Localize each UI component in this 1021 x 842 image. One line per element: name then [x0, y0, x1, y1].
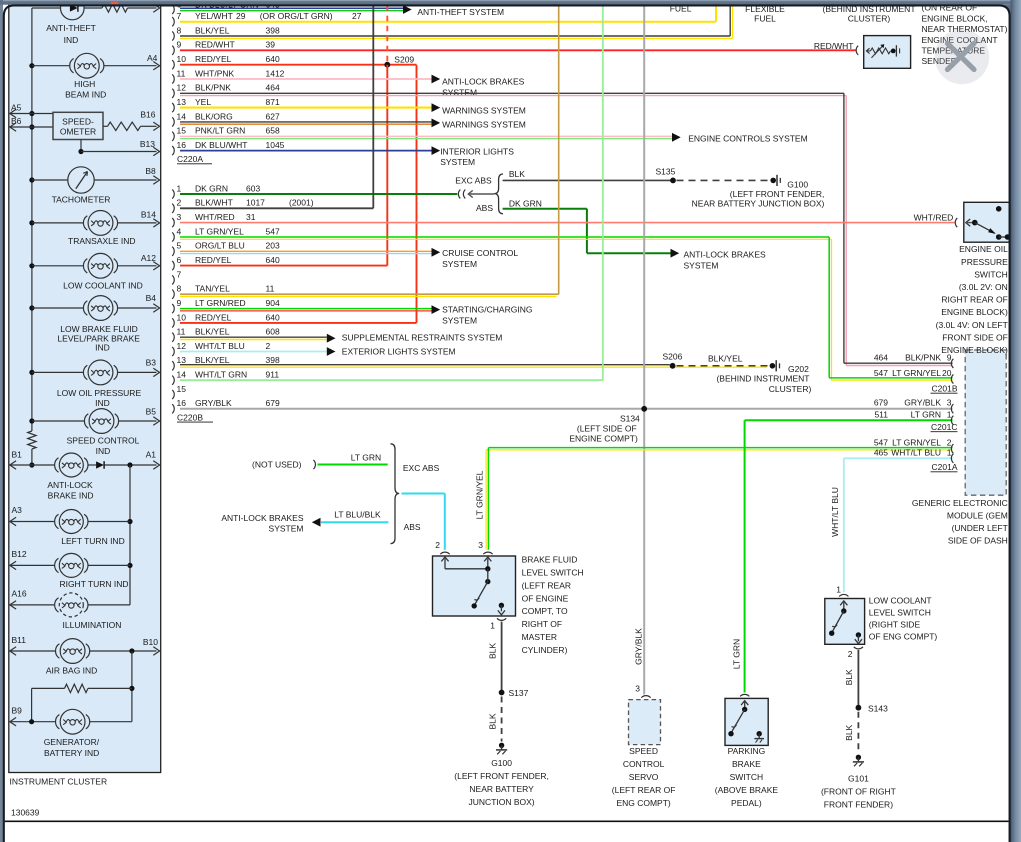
svg-text:LEVEL SWITCH: LEVEL SWITCH — [522, 568, 584, 578]
wire pin4 LT GRN/YEL to GEM pin20 — [180, 236, 829, 238]
pin 6 C220B — [172, 261, 174, 270]
svg-text:2: 2 — [435, 540, 440, 550]
svg-text:(LEFT FRONT FENDER,: (LEFT FRONT FENDER, — [454, 771, 549, 781]
wire: high beam ind row, pin A4 — [32, 65, 70, 67]
lamp row B9 GENERATOR/BATTERY IND — [10, 721, 56, 723]
svg-text:20: 20 — [942, 368, 952, 378]
svg-text:FRONT FENDER): FRONT FENDER) — [824, 799, 893, 809]
svg-text:C201B: C201B — [932, 383, 958, 393]
svg-text:RED/WHT: RED/WHT — [814, 41, 854, 51]
svg-text:RIGHT TURN IND: RIGHT TURN IND — [59, 579, 128, 589]
pin 6 C220A (cut off at top) — [172, 5, 174, 14]
wire pin11 BLK/YEL to SRS — [180, 336, 327, 338]
bottom rule line — [5, 820, 1009, 822]
svg-text:LT BLU/BLK: LT BLU/BLK — [334, 510, 381, 520]
wire pin8 TAN/YEL up to top — [180, 293, 559, 295]
svg-text:B5: B5 — [146, 407, 157, 417]
svg-text:871: 871 — [266, 97, 280, 107]
svg-text:BLK: BLK — [844, 724, 854, 740]
svg-text:BLK/PNK: BLK/PNK — [905, 352, 941, 362]
resistor (anti-theft row) — [102, 4, 128, 12]
svg-text:JUNCTION BOX): JUNCTION BOX) — [469, 797, 535, 807]
svg-text:ENGINE BLOCK,: ENGINE BLOCK, — [922, 13, 988, 23]
svg-text:(3.0L 4V: ON LEFT: (3.0L 4V: ON LEFT — [936, 320, 1008, 330]
svg-text:CLUSTER): CLUSTER) — [769, 384, 812, 394]
svg-text:WHT/LT GRN: WHT/LT GRN — [195, 370, 247, 380]
wire BLK dashed to G100 — [501, 697, 503, 742]
connector arc (not used) — [313, 460, 315, 469]
lamp row A16 — [10, 604, 55, 606]
pin 15 C220B — [172, 390, 174, 399]
svg-text:B6: B6 — [11, 116, 22, 126]
svg-text:ENG COMPT): ENG COMPT) — [616, 798, 670, 808]
svg-text:S135: S135 — [656, 167, 676, 177]
speed control servo M1 (dashed box) — [629, 700, 661, 745]
svg-text:2: 2 — [947, 438, 952, 448]
svg-text:B12: B12 — [12, 549, 27, 559]
svg-text:8: 8 — [177, 284, 182, 294]
splice S137 — [499, 690, 505, 696]
svg-text:ILLUMINATION: ILLUMINATION — [63, 620, 122, 630]
svg-text:911: 911 — [266, 370, 280, 380]
pin 11 C220A — [172, 74, 174, 83]
svg-text:SYSTEM: SYSTEM — [684, 260, 719, 270]
GEM module U2 (dashed box) — [965, 350, 1006, 495]
wire pin9 RED/WHT to coolant sender — [180, 49, 856, 51]
svg-text:(RIGHT SIDE: (RIGHT SIDE — [869, 620, 921, 630]
svg-text:465: 465 — [874, 447, 888, 457]
svg-text:BATTERY IND: BATTERY IND — [44, 748, 99, 758]
svg-text:WHT/LT BLU: WHT/LT BLU — [830, 487, 840, 537]
wire BLK dashed to G101 — [857, 712, 859, 753]
svg-text:S143: S143 — [868, 703, 888, 713]
svg-text:BLK/YEL: BLK/YEL — [708, 353, 743, 363]
wire: tachometer row pin B8 — [32, 179, 68, 181]
svg-text:11: 11 — [177, 68, 186, 78]
svg-text:ANTI-THEFT SYSTEM: ANTI-THEFT SYSTEM — [417, 7, 504, 17]
svg-text:G100: G100 — [787, 180, 808, 190]
svg-text:NEAR BATTERY: NEAR BATTERY — [469, 784, 534, 794]
svg-text:1: 1 — [947, 409, 952, 419]
svg-text:PARKING: PARKING — [728, 746, 766, 756]
pin 12 C220A — [172, 89, 174, 98]
svg-text:13: 13 — [177, 355, 187, 365]
wire pin10 RED/YEL via S209 down to C220B pin10 — [180, 64, 417, 66]
wire LT GRN/YEL from GEM pin2 (C201A) to brake fluid switch pin3 — [488, 447, 952, 449]
svg-text:LEVEL SWITCH: LEVEL SWITCH — [869, 608, 931, 618]
junction on bus — [29, 263, 34, 268]
arrow into brace — [469, 193, 495, 195]
junction on bus — [29, 305, 34, 310]
svg-text:LT GRN/YEL: LT GRN/YEL — [195, 226, 244, 236]
GEM pin 1 (WHT/LT BLU) — [951, 454, 953, 463]
switch internals — [444, 559, 446, 569]
svg-text:IND: IND — [96, 446, 111, 456]
svg-text:A1: A1 — [146, 450, 157, 460]
pin 9 C220B — [172, 304, 174, 313]
wire pin7 YEL/WHT to top (FUEL) — [180, 21, 716, 23]
junction on bus — [29, 220, 34, 225]
svg-text:7: 7 — [177, 269, 182, 279]
svg-text:COMPT, TO: COMPT, TO — [522, 606, 568, 616]
svg-text:BLK: BLK — [488, 643, 498, 659]
splice S209 — [384, 62, 390, 68]
svg-text:547: 547 — [266, 226, 280, 236]
lamp row B14 — [32, 222, 84, 224]
svg-text:14: 14 — [177, 111, 187, 121]
brake fluid level switch SW1 — [433, 556, 516, 616]
ground G100 (lower) — [499, 743, 504, 748]
svg-text:640: 640 — [266, 54, 280, 64]
svg-text:9: 9 — [177, 298, 182, 308]
svg-text:SWITCH: SWITCH — [730, 772, 764, 782]
svg-text:LOW COOLANT IND: LOW COOLANT IND — [63, 281, 143, 291]
svg-text:WARNINGS SYSTEM: WARNINGS SYSTEM — [442, 106, 526, 116]
lamp row B11/B10 AIR BAG IND — [10, 650, 56, 652]
wire LT GRN (not used) — [318, 464, 388, 466]
lamp row B1/A1 ANTI-LOCK BRAKE IND with diode — [10, 464, 55, 466]
svg-text:YEL: YEL — [195, 97, 211, 107]
svg-text:ANTI-LOCK BRAKES: ANTI-LOCK BRAKES — [684, 250, 767, 260]
svg-text:RED/YEL: RED/YEL — [195, 54, 232, 64]
svg-text:A16: A16 — [12, 589, 27, 599]
diode (anti-lock brake ind) — [96, 461, 104, 468]
svg-text:PRESSURE: PRESSURE — [961, 257, 1008, 267]
svg-text:1045: 1045 — [266, 140, 285, 150]
wire pin12 BLK/PNK to GEM pin9 — [180, 92, 844, 94]
wire dashed ORG/LT GRN alt from S209 to top — [386, 6, 388, 65]
pin 10 C220B — [172, 318, 174, 327]
wire DK GRN from brace to ABS arrow — [503, 208, 587, 210]
svg-text:BLK/ORG: BLK/ORG — [195, 111, 233, 121]
svg-text:464: 464 — [874, 352, 888, 362]
wire: cluster feed bus — [31, 8, 33, 431]
svg-text:LOW COOLANT: LOW COOLANT — [869, 596, 932, 606]
svg-text:ANTI-LOCK BRAKES: ANTI-LOCK BRAKES — [221, 513, 304, 523]
svg-text:LT GRN: LT GRN — [911, 409, 941, 419]
svg-text:(LEFT FRONT FENDER,: (LEFT FRONT FENDER, — [730, 189, 825, 199]
svg-text:FUEL: FUEL — [754, 14, 776, 24]
svg-text:1: 1 — [490, 620, 495, 630]
svg-text:LT GRN: LT GRN — [351, 453, 381, 463]
svg-text:11: 11 — [266, 284, 275, 294]
svg-text:640: 640 — [266, 255, 280, 265]
svg-text:3: 3 — [947, 398, 952, 408]
wire cyan from brace to brake fluid switch pin2 — [402, 493, 445, 495]
wire LT GRN from GEM pin1 (C201C) to parking brake switch — [745, 419, 953, 421]
wire pin8 BLK/YEL to top (FLEXIBLE FUEL) — [180, 35, 730, 37]
pin 1 cap/label — [497, 618, 506, 620]
svg-text:547: 547 — [874, 438, 888, 448]
svg-text:B9: B9 — [12, 706, 23, 716]
svg-text:EXTERIOR LIGHTS SYSTEM: EXTERIOR LIGHTS SYSTEM — [342, 347, 456, 357]
svg-text:14: 14 — [177, 370, 187, 380]
svg-text:GENERIC ELECTRONIC: GENERIC ELECTRONIC — [912, 498, 1008, 508]
svg-text:RED/YEL: RED/YEL — [195, 312, 232, 322]
svg-text:2: 2 — [848, 649, 853, 659]
svg-text:398: 398 — [266, 355, 280, 365]
parking brake switch SW2 — [740, 694, 749, 696]
wire pin15 PNK/LT GRN to engine controls — [180, 135, 672, 137]
wire pin14 WHT/LT GRN up to top — [180, 379, 603, 381]
junction on bus — [29, 370, 34, 375]
wire pin16 GRY/BLK to GEM pin3 via S134 — [180, 408, 953, 410]
splice S206 — [670, 363, 676, 369]
svg-text:SWITCH: SWITCH — [974, 269, 1008, 279]
svg-text:IND: IND — [95, 343, 110, 353]
svg-text:BLK/WHT: BLK/WHT — [195, 198, 233, 208]
svg-text:BLK/YEL: BLK/YEL — [195, 25, 230, 35]
svg-text:RIGHT OF: RIGHT OF — [522, 619, 562, 629]
right chrome band — [997, 5, 1011, 19]
ground G202 — [770, 363, 776, 369]
GEM pin 20 (LT GRN/YEL) — [951, 374, 953, 383]
svg-text:679: 679 — [874, 398, 888, 408]
svg-text:TAN/YEL: TAN/YEL — [195, 284, 230, 294]
svg-text:29: 29 — [236, 11, 246, 21]
brace (EXC ABS / ABS split) — [494, 174, 503, 214]
svg-text:10: 10 — [177, 312, 187, 322]
svg-text:A12: A12 — [141, 253, 156, 263]
svg-text:ANTI-THEFT: ANTI-THEFT — [46, 23, 96, 33]
svg-text:GENERATOR/: GENERATOR/ — [44, 737, 100, 747]
pin 15 C220A — [172, 132, 174, 141]
brace (EXC ABS/ABS at brake fluid switch) — [391, 444, 400, 544]
pin 14 C220A — [172, 117, 174, 126]
svg-text:BLK/PNK: BLK/PNK — [195, 83, 231, 93]
svg-text:15: 15 — [177, 126, 187, 136]
svg-text:B16: B16 — [140, 110, 155, 120]
lamp row A12 — [32, 265, 84, 267]
svg-text:B11: B11 — [12, 635, 27, 645]
wire: speedometer pin A5 — [10, 113, 53, 115]
pin 16 C220A — [172, 146, 174, 155]
GEM pin 2 (LT GRN/YEL) — [951, 444, 953, 453]
svg-text:3: 3 — [478, 540, 483, 550]
speedometer U1 — [53, 112, 103, 139]
svg-text:BLK: BLK — [488, 713, 498, 729]
svg-text:DK GRN: DK GRN — [509, 199, 542, 209]
svg-text:658: 658 — [266, 126, 280, 136]
pin 12 C220B — [172, 347, 174, 356]
svg-text:WHT/RED: WHT/RED — [195, 212, 235, 222]
svg-text:SPEED-: SPEED- — [62, 117, 94, 127]
svg-text:904: 904 — [266, 298, 280, 308]
svg-text:CRUISE CONTROL: CRUISE CONTROL — [442, 248, 518, 258]
svg-text:GRY/BLK: GRY/BLK — [195, 398, 232, 408]
wire pin3 WHT/RED to oil pressure switch — [180, 222, 955, 224]
svg-text:1: 1 — [947, 447, 952, 457]
svg-text:CLUSTER): CLUSTER) — [848, 13, 891, 23]
pin 11 C220B — [172, 333, 174, 342]
svg-text:YEL/WHT: YEL/WHT — [195, 11, 233, 21]
svg-text:SPEED: SPEED — [629, 746, 658, 756]
svg-text:LOW BRAKE FLUID: LOW BRAKE FLUID — [60, 324, 137, 334]
svg-text:ABS: ABS — [476, 203, 493, 213]
GEM pin 9 (BLK/PNK) — [951, 359, 953, 368]
wire BLK from brace to S135 and dashed to G100 — [503, 179, 671, 181]
svg-text:2: 2 — [177, 198, 182, 208]
svg-text:DK BLU/WHT: DK BLU/WHT — [195, 140, 247, 150]
svg-text:ORG/LT BLU: ORG/LT BLU — [195, 241, 245, 251]
svg-text:B10: B10 — [143, 637, 158, 647]
svg-text:MODULE (GEM: MODULE (GEM — [947, 511, 1008, 521]
junction on bus — [29, 111, 34, 116]
engine oil pressure switch SW4 — [964, 202, 1010, 242]
svg-text:RED/YEL: RED/YEL — [195, 255, 232, 265]
svg-text:608: 608 — [266, 327, 280, 337]
pin 7 C220B — [172, 275, 174, 284]
svg-text:(BEHIND INSTRUMENT: (BEHIND INSTRUMENT — [716, 374, 809, 384]
svg-text:CONTROL: CONTROL — [623, 759, 665, 769]
svg-text:HIGH: HIGH — [74, 79, 95, 89]
svg-text:G101: G101 — [848, 773, 869, 783]
wire: right branch vertical — [129, 465, 131, 605]
resistor R-bus (in cluster) — [28, 431, 36, 449]
svg-text:IND: IND — [64, 35, 79, 45]
svg-text:SYSTEM: SYSTEM — [442, 315, 477, 325]
svg-text:3: 3 — [635, 683, 640, 693]
svg-text:WHT/RED: WHT/RED — [914, 212, 954, 222]
svg-text:CYLINDER): CYLINDER) — [522, 645, 568, 655]
svg-text:C201C: C201C — [931, 422, 957, 432]
svg-text:(LEFT REAR OF: (LEFT REAR OF — [612, 785, 676, 795]
svg-text:6: 6 — [177, 255, 182, 265]
wire pin11 WHT/PNK to ABS system arrow — [180, 78, 432, 80]
svg-text:511: 511 — [874, 409, 888, 419]
instrument cluster panel — [9, 2, 161, 773]
svg-text:15: 15 — [177, 384, 187, 394]
close button (X) overlay — [935, 30, 990, 85]
svg-text:130639: 130639 — [11, 808, 40, 818]
inline connector arcs — [458, 190, 460, 199]
svg-text:679: 679 — [266, 398, 280, 408]
splice S134 — [641, 406, 647, 412]
svg-text:WHT/LT BLU: WHT/LT BLU — [891, 447, 941, 457]
junction on bus — [29, 462, 34, 467]
wire BLK pin2 to S143 — [857, 650, 859, 708]
lamp row A3 — [10, 521, 55, 523]
svg-text:C201A: C201A — [932, 462, 958, 472]
wire RED/YEL S209 down to C220B pin6 — [386, 65, 388, 266]
svg-text:WHT/PNK: WHT/PNK — [195, 68, 235, 78]
svg-text:EXC ABS: EXC ABS — [403, 463, 440, 473]
junction on bus — [29, 418, 34, 423]
svg-text:ANTI-LOCK BRAKES: ANTI-LOCK BRAKES — [442, 77, 525, 87]
tiny red mark on bar — [111, 2, 119, 5]
svg-text:B3: B3 — [146, 358, 157, 368]
wire: anti-theft ind row — [32, 7, 61, 9]
svg-text:BRAKE IND: BRAKE IND — [48, 491, 94, 501]
svg-text:ENGINE BLOCK): ENGINE BLOCK) — [941, 345, 1008, 355]
svg-text:(NOT USED): (NOT USED) — [252, 460, 302, 470]
wire pin2 BLK/WHT up to top — [180, 207, 373, 209]
wire pin9 LT GRN/RED to starting/charging — [180, 308, 432, 310]
svg-text:PNK/LT GRN: PNK/LT GRN — [195, 126, 245, 136]
svg-text:B8: B8 — [145, 166, 156, 176]
svg-text:LT GRN: LT GRN — [732, 639, 742, 669]
svg-text:IND: IND — [95, 398, 110, 408]
engine coolant temperature sender RT1 — [864, 36, 911, 69]
wire pin13 BLK/YEL to S206 and dashed to G202 — [180, 364, 670, 366]
wire pin13 YEL to warnings — [180, 107, 432, 109]
svg-text:(LEFT REAR: (LEFT REAR — [522, 580, 571, 590]
svg-text:PEDAL): PEDAL) — [731, 798, 762, 808]
svg-text:ABS: ABS — [404, 522, 421, 532]
pin 8 C220B — [172, 290, 174, 299]
pin 14 C220B — [172, 376, 174, 385]
GEM pin 1 (LT GRN) — [951, 416, 953, 425]
ground G100 (upper) — [770, 178, 776, 184]
pin 4 C220B — [172, 232, 174, 241]
wire: pin B13 from speedometer — [80, 140, 82, 152]
svg-text:(2001): (2001) — [289, 198, 314, 208]
svg-text:STARTING/CHARGING: STARTING/CHARGING — [442, 305, 532, 315]
svg-text:LEFT TURN IND: LEFT TURN IND — [61, 536, 124, 546]
svg-text:9: 9 — [177, 40, 182, 50]
svg-text:S137: S137 — [509, 688, 529, 698]
svg-text:ENGINE CONTROLS SYSTEM: ENGINE CONTROLS SYSTEM — [688, 134, 808, 144]
svg-text:SPEED CONTROL: SPEED CONTROL — [67, 436, 140, 446]
svg-text:(FRONT OF RIGHT: (FRONT OF RIGHT — [821, 786, 896, 796]
svg-text:(ABOVE BRAKE: (ABOVE BRAKE — [715, 785, 779, 795]
resistor (generator row) — [88, 687, 132, 689]
svg-text:603: 603 — [246, 183, 260, 193]
svg-text:SIDE OF DASH: SIDE OF DASH — [948, 536, 1008, 546]
resistor + pin B16 — [103, 125, 108, 127]
svg-text:FRONT SIDE OF: FRONT SIDE OF — [942, 332, 1008, 342]
svg-text:1017: 1017 — [246, 198, 265, 208]
svg-text:WARNINGS SYSTEM: WARNINGS SYSTEM — [442, 120, 526, 130]
svg-text:S209: S209 — [394, 55, 414, 65]
GEM pin 3 (GRY/BLK) — [951, 404, 953, 413]
wire WHT/LT BLU from GEM pin1 (C201A) to low coolant switch — [844, 457, 953, 459]
pin 2 C220B — [172, 204, 174, 213]
svg-text:RIGHT REAR OF: RIGHT REAR OF — [941, 295, 1007, 305]
svg-text:8: 8 — [177, 25, 182, 35]
pin 9 C220A — [172, 46, 174, 55]
svg-text:SYSTEM: SYSTEM — [269, 523, 304, 533]
pin 10 C220A — [172, 60, 174, 69]
pin 8 C220A — [172, 31, 174, 40]
svg-text:RED/WHT: RED/WHT — [195, 40, 235, 50]
svg-text:1: 1 — [177, 183, 182, 193]
svg-text:BLK/YEL: BLK/YEL — [195, 327, 230, 337]
svg-text:C220A: C220A — [177, 154, 203, 164]
svg-text:NEAR BATTERY JUNCTION BOX): NEAR BATTERY JUNCTION BOX) — [692, 199, 825, 209]
svg-text:B13: B13 — [140, 139, 155, 149]
svg-text:640: 640 — [266, 312, 280, 322]
svg-text:5: 5 — [177, 241, 182, 251]
svg-text:A5: A5 — [11, 103, 22, 113]
svg-text:SYSTEM: SYSTEM — [442, 259, 477, 269]
svg-text:12: 12 — [177, 341, 187, 351]
junction on bus — [29, 63, 34, 68]
svg-text:16: 16 — [177, 398, 187, 408]
svg-text:MASTER: MASTER — [522, 632, 557, 642]
svg-text:398: 398 — [266, 25, 280, 35]
svg-text:BRAKE FLUID: BRAKE FLUID — [522, 555, 578, 565]
splice S135 — [670, 178, 676, 184]
svg-text:TRANSAXLE IND: TRANSAXLE IND — [68, 236, 136, 246]
svg-text:LT GRN/RED: LT GRN/RED — [195, 298, 246, 308]
anti-theft indicator LED (diode in circle) — [61, 0, 85, 20]
wire pin5 ORG/LT BLU to cruise control — [180, 250, 432, 252]
svg-text:31: 31 — [246, 212, 256, 222]
svg-text:LOW OIL PRESSURE: LOW OIL PRESSURE — [57, 388, 142, 398]
svg-text:39: 39 — [266, 40, 276, 50]
svg-text:BLK: BLK — [509, 169, 525, 179]
